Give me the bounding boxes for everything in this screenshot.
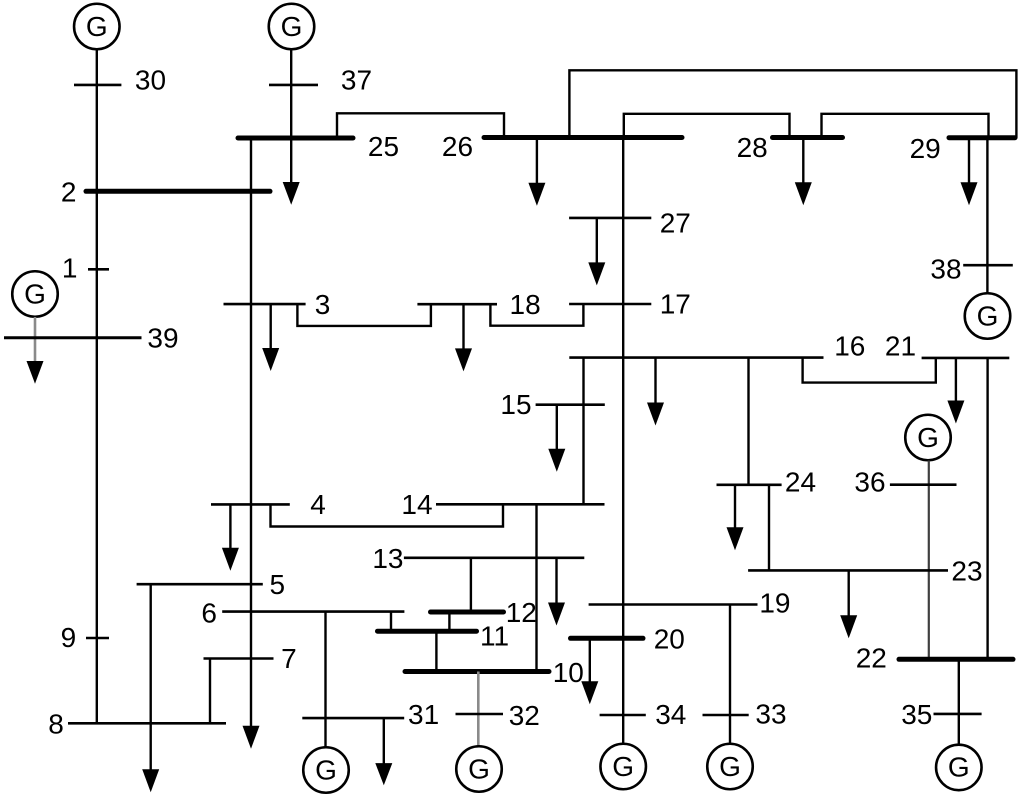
bus 29	[949, 135, 1015, 140]
bus 3	[224, 303, 306, 306]
svg-text:G: G	[612, 751, 634, 782]
load arrow at bus 26	[528, 138, 545, 206]
wire link 26-28	[624, 114, 790, 138]
svg-text:9: 9	[61, 622, 77, 653]
wire bus30-bus2-bus1-bus39-bus9-bus8 left spine	[96, 49, 98, 723]
load arrow at bus 39	[27, 361, 44, 384]
wire G37-bus25 with load arrow at bus25	[290, 49, 292, 184]
load arrow at bus 13	[548, 558, 565, 626]
bus 20	[571, 636, 644, 641]
wire bus6-bus11	[390, 612, 392, 632]
load arrow at bus 28	[795, 138, 812, 206]
svg-text:G: G	[281, 11, 303, 42]
svg-text:21: 21	[885, 331, 916, 362]
load arrow at bus 18	[455, 304, 472, 371]
svg-text:17: 17	[660, 288, 691, 319]
svg-text:G: G	[86, 11, 108, 42]
load arrow at bus 20	[581, 638, 598, 704]
generator G39	[12, 271, 58, 317]
svg-text:6: 6	[201, 597, 217, 628]
bus 34 tick	[600, 714, 646, 717]
generator G34	[600, 744, 646, 790]
svg-text:37: 37	[341, 65, 372, 96]
bus 11	[378, 629, 477, 634]
bus 25	[238, 136, 353, 141]
svg-text:33: 33	[755, 699, 786, 730]
wire bus16-bus15-bus14	[582, 358, 584, 505]
bus 8	[68, 722, 226, 725]
wire bus5-bus8 with load arrow below bus 8	[149, 584, 151, 771]
svg-text:3: 3	[315, 289, 331, 320]
svg-text:24: 24	[785, 467, 816, 498]
svg-text:38: 38	[930, 254, 961, 285]
svg-text:8: 8	[48, 709, 64, 740]
generator G38	[965, 293, 1011, 339]
bus 15	[536, 403, 605, 406]
wire bus25-bus2-bus3-bus4-bus5-bus7 chain with load arrow below 7	[250, 138, 252, 727]
bus 32 tick	[456, 713, 504, 716]
load arrow at bus 27	[588, 218, 605, 286]
bus 24	[717, 483, 782, 486]
svg-text:7: 7	[281, 643, 297, 674]
wire G36-bus36-bus23-bus22 (dark gray)	[928, 461, 930, 660]
svg-text:22: 22	[856, 643, 887, 674]
wire link 25-26	[337, 113, 504, 138]
bus 13	[404, 556, 584, 559]
generator G32	[456, 746, 502, 792]
wire bus19-bus33-G33	[729, 605, 731, 745]
bus 14	[436, 503, 605, 506]
wire bus21-bus22	[986, 358, 988, 659]
svg-text:11: 11	[480, 621, 509, 652]
generator G35	[936, 745, 982, 791]
svg-text:G: G	[719, 751, 741, 782]
load arrow at bus 3	[262, 304, 279, 371]
wire bus26-27-17-16-19-20-34 long spine	[622, 138, 624, 745]
svg-text:G: G	[977, 300, 999, 331]
svg-text:23: 23	[951, 556, 982, 587]
wire bus24-bus23	[768, 485, 770, 571]
load arrow at bus 16	[647, 358, 664, 426]
svg-text:20: 20	[654, 623, 685, 654]
bus 37 tick	[269, 84, 318, 87]
bus 22	[899, 657, 1013, 662]
bus 31	[302, 717, 404, 720]
bus 5	[137, 583, 263, 586]
svg-text:35: 35	[901, 699, 932, 730]
svg-text:29: 29	[910, 133, 941, 164]
wire link 28-29	[822, 114, 989, 138]
wire bus29-bus38-G38	[986, 138, 988, 294]
generator G31	[303, 747, 349, 793]
wire link 16-21	[803, 358, 936, 383]
bus 21	[922, 357, 1010, 360]
load arrow below bus 7	[243, 726, 260, 749]
bus 39	[4, 336, 142, 339]
load arrow at bus 29	[961, 138, 978, 206]
bus 12	[431, 610, 504, 615]
svg-text:10: 10	[553, 657, 584, 688]
bus 27	[569, 217, 651, 220]
wire bus11-bus10	[435, 631, 437, 671]
bus 10	[405, 669, 549, 674]
bus 7	[204, 657, 274, 660]
svg-text:2: 2	[61, 176, 77, 207]
bus 6	[222, 610, 404, 613]
bus 38 tick	[963, 264, 1013, 267]
svg-text:14: 14	[401, 489, 432, 520]
svg-text:32: 32	[509, 700, 540, 731]
bus 30 tick	[74, 84, 121, 87]
svg-text:25: 25	[368, 131, 399, 162]
svg-text:27: 27	[660, 208, 691, 239]
wire link 18-17	[490, 304, 583, 326]
wire bus10-bus32-G32 (gray)	[477, 672, 480, 747]
generator G36	[905, 415, 951, 461]
bus 35 tick	[934, 713, 982, 716]
bus 19	[589, 603, 758, 606]
svg-text:16: 16	[834, 331, 865, 362]
svg-text:12: 12	[506, 597, 537, 628]
svg-text:G: G	[468, 753, 490, 784]
load arrow at bus 23	[840, 570, 857, 638]
wire G39 lead + load shaft (gray)	[34, 317, 37, 364]
bus 23	[748, 569, 948, 572]
wire bus22-bus35-G35	[958, 659, 960, 745]
svg-text:G: G	[24, 278, 46, 309]
svg-text:G: G	[948, 752, 970, 783]
svg-text:4: 4	[310, 489, 326, 520]
bus 26	[484, 135, 682, 140]
bus 33 tick	[703, 714, 749, 717]
generator G37	[269, 4, 315, 50]
load arrow at bus 31	[375, 718, 392, 785]
wire bus14-bus13-bus10	[535, 504, 537, 671]
svg-text:36: 36	[854, 467, 885, 498]
generator G30	[74, 4, 120, 50]
svg-text:34: 34	[655, 699, 686, 730]
load arrow at bus 15	[548, 405, 565, 472]
bus 9 tick	[86, 637, 109, 640]
load arrow at bus 24	[727, 485, 744, 551]
svg-text:26: 26	[442, 131, 473, 162]
generator G33	[707, 744, 753, 790]
bus 17	[569, 303, 651, 306]
svg-text:15: 15	[500, 389, 531, 420]
wire link 3-18	[297, 304, 431, 326]
load arrow below bus 8	[142, 769, 159, 792]
bus 4	[211, 503, 290, 506]
load arrow at bus 25	[283, 182, 300, 205]
svg-text:28: 28	[737, 132, 768, 163]
bus 18	[417, 303, 497, 306]
load arrow at bus 4	[222, 504, 239, 570]
wire bus16-bus24	[747, 358, 749, 485]
bus 28	[773, 135, 843, 140]
svg-text:G: G	[917, 422, 939, 453]
bus 1 tick	[88, 268, 109, 271]
svg-text:31: 31	[408, 699, 439, 730]
svg-text:G: G	[315, 754, 337, 785]
svg-text:18: 18	[510, 289, 541, 320]
bus 16	[569, 356, 823, 359]
bus 36 tick	[890, 483, 957, 486]
wire bus12-bus11	[448, 612, 450, 631]
bus 2	[86, 189, 270, 194]
svg-text:1: 1	[62, 252, 78, 283]
svg-text:30: 30	[135, 64, 166, 95]
wire bus6-bus31-G31	[324, 612, 326, 748]
wire bus13-bus12	[470, 558, 472, 612]
svg-text:19: 19	[759, 588, 790, 619]
svg-text:39: 39	[147, 323, 178, 354]
load arrow at bus 21	[947, 358, 964, 424]
wire link 26-29 top	[569, 70, 1016, 137]
wire bus7-bus8	[209, 659, 211, 724]
wire link 4-14	[271, 504, 504, 526]
svg-text:13: 13	[372, 543, 403, 574]
svg-text:5: 5	[270, 569, 286, 600]
